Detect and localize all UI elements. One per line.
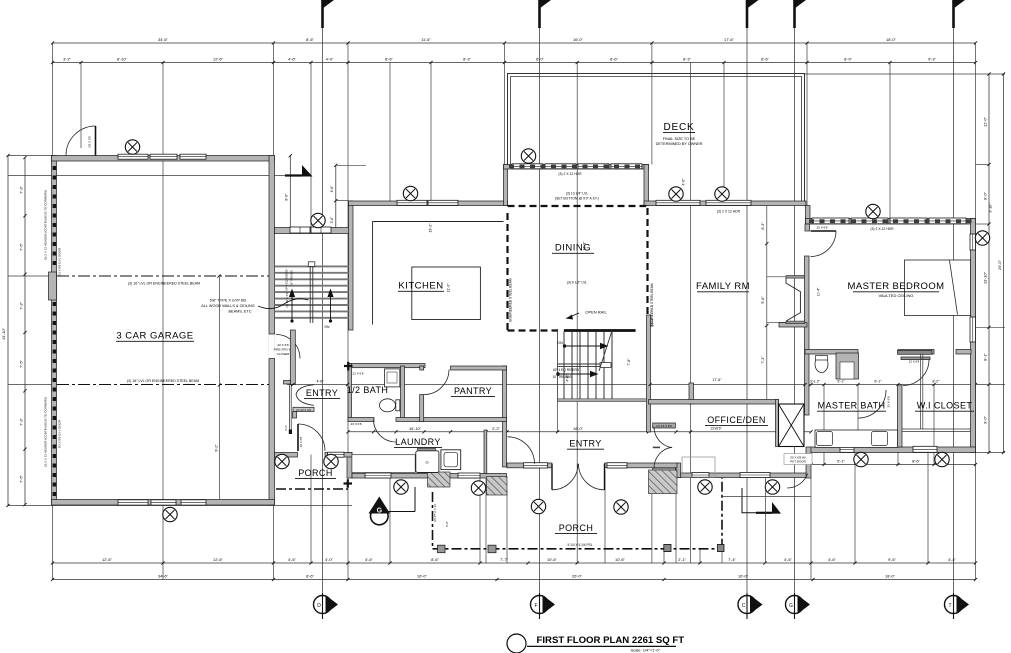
svg-text:(2) 24 X 6'8: (2) 24 X 6'8 [656, 424, 672, 428]
wall: pantry north [451, 366, 507, 370]
svg-text:8'-6": 8'-6" [306, 37, 314, 42]
window: master north 1 [812, 218, 849, 224]
kitchen counter lines [373, 221, 504, 223]
window keynote ⊗: master south 1 [854, 452, 868, 466]
svg-text:F: F [534, 603, 537, 609]
stair back: treads [275, 266, 349, 317]
window keynote ⊗: family 2 [715, 187, 729, 201]
svg-text:8'-3": 8'-3" [683, 57, 691, 62]
svg-text:PKT DOOR: PKT DOOR [790, 460, 806, 464]
svg-text:FIRE RTD W/: FIRE RTD W/ [274, 348, 293, 352]
wall: left porch wall west [275, 453, 298, 458]
dimension line: bottom row overall [51, 578, 977, 581]
beam line garage lower (3) 16in LVL [57, 384, 272, 386]
svg-text:ENGINEERED STEEL BEAM: ENGINEERED STEEL BEAM [509, 278, 513, 322]
window keynote ⊗: garage bottom [163, 507, 177, 521]
svg-text:4'-6": 4'-6" [566, 374, 570, 382]
grid line T [953, 8, 955, 596]
svg-text:8'-6": 8'-6" [306, 574, 314, 579]
garage door panel dashes [53, 166, 57, 496]
svg-text:UP 4 EQ RISERS: UP 4 EQ RISERS [285, 269, 289, 291]
door arc: coat closet door lower [654, 447, 672, 468]
svg-text:4'-6": 4'-6" [682, 178, 686, 186]
svg-text:2'8 X 6'8: 2'8 X 6'8 [88, 136, 92, 148]
office bench [682, 457, 715, 477]
svg-text:5/8" TYPE X GYP BD: 5/8" TYPE X GYP BD [210, 299, 247, 303]
svg-text:4'-6": 4'-6" [317, 379, 325, 383]
dashed beam dining south [508, 329, 558, 331]
window keynote ⊗: office 2 [765, 480, 779, 494]
svg-text:4'-4": 4'-4" [948, 557, 956, 562]
svg-text:28 X 6'8: 28 X 6'8 [299, 436, 303, 447]
svg-text:13'-10": 13'-10" [983, 271, 988, 284]
svg-text:18'-0": 18'-0" [886, 37, 897, 42]
window: office south 1 [692, 473, 709, 478]
window: master east 1 [970, 234, 976, 250]
grid bubble (bottom): grid D [314, 593, 339, 619]
svg-text:PANTRY: PANTRY [454, 386, 492, 396]
svg-text:4'-0": 4'-0" [326, 57, 334, 62]
door arc: left entry door [298, 424, 325, 451]
beam line garage upper (3) 16in LVL [57, 275, 273, 277]
window: dining 3 [578, 164, 609, 169]
wall: laundry north east piece [396, 418, 507, 422]
stair back: UP arrow right [327, 289, 333, 323]
wall: pantry/entry west wall [503, 366, 507, 467]
svg-text:OFFICE/DEN: OFFICE/DEN [707, 415, 766, 425]
window: dining 2 [545, 164, 576, 169]
svg-text:34'-6": 34'-6" [158, 37, 169, 42]
svg-text:3'-10": 3'-10" [989, 203, 993, 213]
svg-text:MASTER BATH: MASTER BATH [818, 401, 886, 411]
wall: kitchen west [349, 201, 354, 330]
svg-text:11'-9": 11'-9" [583, 241, 587, 251]
coat closet north stub + label [653, 423, 676, 428]
door arc: master bath door [858, 390, 886, 418]
deck outline inner [511, 77, 802, 202]
wall: office west stub [689, 383, 694, 404]
svg-text:7'-5": 7'-5" [19, 475, 24, 483]
svg-text:4'-6": 4'-6" [288, 57, 296, 62]
wall: laundry south [352, 474, 507, 479]
wall: dining north window-wall [504, 165, 649, 170]
wall: pantry west hinge stub [420, 366, 424, 370]
dimension line: right outer [1002, 72, 1005, 454]
window keynote ⊗: master north [866, 204, 880, 218]
window: garage top 1 [118, 154, 148, 159]
toilet nook block [836, 353, 859, 379]
grid line D [322, 8, 324, 596]
svg-text:16'-10": 16'-10" [409, 426, 422, 431]
svg-text:8'-6": 8'-6" [912, 459, 920, 464]
svg-text:3'-6": 3'-6" [330, 216, 334, 224]
svg-text:8'-0": 8'-0" [536, 57, 544, 62]
window keynote ⊗: kitchen [403, 186, 417, 200]
grid bubble (bottom): grid G [786, 593, 811, 619]
window: back porch 1 [290, 227, 310, 233]
grid flag (top): grid G [795, 0, 807, 28]
door arc: garage man door [66, 126, 96, 156]
wall: master connector [806, 206, 811, 225]
svg-text:(3) 2 X 12 HEADER (CONTINUOUS: (3) 2 X 12 HEADER (CONTINUOUS TO CORNERS… [44, 190, 48, 260]
window: master east 2 [970, 317, 976, 342]
half-bath toilet [380, 399, 400, 412]
window keynote ⊗: office 1 [698, 480, 712, 494]
window keynote ⊗: family 1 [669, 187, 683, 201]
door arc: coat closet door upper [654, 427, 672, 448]
side porch edge line [722, 496, 811, 498]
front double door leaves [551, 464, 553, 490]
svg-text:G: G [425, 460, 428, 465]
svg-text:5'-6": 5'-6" [761, 296, 765, 304]
wall: office north [649, 400, 779, 405]
stair back: UP arrow left [289, 289, 295, 323]
hall internal dim [291, 383, 294, 386]
svg-text:43'-10": 43'-10" [1, 327, 6, 340]
wall: bed/bath wall west piece [805, 350, 858, 355]
stair main: left edge [557, 329, 559, 401]
garage man door leaf [95, 126, 97, 156]
svg-text:2'-2": 2'-2" [284, 425, 288, 431]
window: master south 2 [913, 446, 937, 452]
window: office south 2 [740, 473, 770, 478]
svg-text:12'-6": 12'-6" [213, 57, 224, 62]
svg-text:7'-3": 7'-3" [761, 356, 765, 364]
window: dining 4 [611, 164, 642, 169]
window: dining 1 [512, 164, 543, 169]
wic door header [901, 357, 930, 360]
svg-text:8'-6": 8'-6" [431, 557, 439, 562]
stair main: top rail heavy line [564, 329, 636, 332]
svg-text:UP 4 EQ RISERS: UP 4 EQ RISERS [553, 368, 580, 372]
door arc: front door right leaf [579, 464, 605, 490]
grid line F [539, 8, 541, 596]
window: master south 1 [840, 446, 854, 452]
svg-text:3 CAR GARAGE: 3 CAR GARAGE [116, 331, 193, 342]
window: master north 3 [890, 218, 927, 224]
laundry sink [441, 450, 461, 470]
hall closet stub wall [293, 412, 297, 419]
svg-text:4'-0": 4'-0" [325, 557, 333, 562]
wall: bath-closet wall [898, 385, 903, 447]
column plus mark upper [344, 365, 353, 367]
stair main: UP arrow [556, 371, 598, 377]
svg-text:(3) 2 X 12 HDR: (3) 2 X 12 HDR [870, 227, 894, 231]
window: master north 2 [851, 218, 888, 224]
window keynote ⊗: laundry 1 [394, 480, 408, 494]
svg-text:(3) 13 1/4" LVL: (3) 13 1/4" LVL [566, 191, 589, 195]
window: garage bottom 2 [151, 500, 176, 505]
porch front edge dash-dot [433, 548, 723, 550]
svg-text:8'-6": 8'-6" [610, 57, 618, 62]
wall: half-bath west [348, 364, 352, 421]
svg-text:VAULTED CEILING: VAULTED CEILING [879, 293, 914, 298]
wall: master east [971, 219, 976, 453]
door arc: laundry door [374, 420, 397, 443]
svg-text:KITCHEN: KITCHEN [398, 281, 443, 292]
window keynote ⊗: laundry 2 [471, 481, 485, 495]
svg-text:12'-6": 12'-6" [213, 557, 224, 562]
svg-text:7'-7": 7'-7" [500, 557, 508, 562]
family fireplace niche [767, 276, 805, 324]
svg-text:FAMILY RM: FAMILY RM [696, 281, 750, 292]
door arc: office pocket door [787, 474, 808, 489]
svg-text:C: C [742, 603, 746, 609]
washer [416, 448, 439, 472]
door arc: kitchen/entry door [508, 437, 535, 464]
svg-text:13'x6'6": 13'x6'6" [710, 427, 723, 431]
svg-text:LAUNDRY: LAUNDRY [395, 437, 441, 447]
title circle [507, 634, 526, 653]
svg-text:(3) 2 X 12 HDR: (3) 2 X 12 HDR [717, 210, 741, 214]
window keynote ⊗: master south 2 [935, 452, 949, 466]
wall: entry-office jog [676, 463, 681, 478]
wall: garage right [269, 156, 275, 506]
svg-text:CLOSER: CLOSER [277, 352, 290, 356]
door arc: bedroom door [811, 231, 837, 257]
svg-text:8'-9": 8'-9" [844, 57, 852, 62]
wall: entry south west piece [507, 463, 552, 468]
extension lines vertical [52, 43, 54, 580]
dimension line: top row overall [51, 41, 977, 44]
window: garage top 3 [180, 154, 206, 159]
svg-text:7'-5": 7'-5" [19, 360, 24, 368]
svg-text:20 X 6'8: 20 X 6'8 [277, 343, 289, 347]
back porch 4'-6/3'-6 dim column [335, 165, 337, 232]
window keynote ⊗: entry 1 [531, 499, 545, 513]
svg-text:10'-6": 10'-6" [547, 557, 558, 562]
svg-text:(2) 20 X 6'8: (2) 20 X 6'8 [296, 408, 311, 412]
svg-text:9'-2": 9'-2" [215, 444, 219, 452]
header keynote line y176 [8, 175, 285, 177]
wall: garage left [52, 156, 57, 506]
chimney box with X [779, 404, 805, 447]
svg-text:4'-6": 4'-6" [288, 557, 296, 562]
grid flag (top): grid D [323, 0, 335, 28]
svg-text:14'-4": 14'-4" [651, 317, 655, 327]
wall: bedroom west upper [805, 224, 810, 231]
wall: entry south east piece [605, 463, 678, 468]
svg-text:22 X 6'8: 22 X 6'8 [353, 372, 364, 376]
window: left porch [328, 452, 345, 457]
wall: laundry north west piece [348, 418, 374, 422]
svg-text:BEAMS, ETC: BEAMS, ETC [229, 310, 252, 314]
window: kitchen 2 [428, 200, 458, 205]
kitchen island [412, 267, 481, 320]
master bath vanity [815, 430, 898, 448]
svg-text:8'-3": 8'-3" [761, 222, 765, 230]
internal extension line y385 [8, 384, 57, 386]
wic shelves [902, 354, 971, 432]
svg-text:DETERMINED BY OWNER: DETERMINED BY OWNER [656, 142, 703, 146]
svg-text:22 X 6'8: 22 X 6'8 [909, 359, 920, 363]
svg-text:PORCH: PORCH [298, 468, 333, 478]
wall: pantry west lower [420, 395, 424, 422]
svg-text:DECK: DECK [664, 122, 695, 133]
grid bubble (bottom): grid T [945, 593, 970, 619]
svg-text:20 X 6'8: 20 X 6'8 [351, 422, 362, 426]
grid flag (top): grid T [954, 0, 966, 28]
grid line C [746, 8, 748, 596]
wall: master north window-wall [806, 219, 976, 225]
svg-text:12'-0": 12'-0" [983, 116, 988, 127]
left entry door leaf [297, 424, 299, 451]
column plus mark lower [344, 482, 353, 484]
svg-text:D: D [317, 603, 321, 609]
svg-text:ENTRY: ENTRY [569, 439, 601, 449]
back porch 8'-6 dim [289, 156, 291, 229]
svg-text:3'-2": 3'-2" [63, 57, 71, 62]
svg-text:26'-0": 26'-0" [572, 574, 583, 579]
svg-text:G: G [789, 603, 793, 609]
stair main: break line [599, 331, 612, 371]
window: garage top 2 [150, 154, 177, 159]
family dim stack [766, 206, 768, 400]
svg-text:7'-3": 7'-3" [19, 418, 24, 426]
svg-text:DN: DN [557, 341, 563, 345]
svg-text:2'-1": 2'-1" [678, 557, 686, 562]
svg-text:10'-4": 10'-4" [817, 287, 821, 296]
svg-text:8'-6": 8'-6" [761, 57, 769, 62]
svg-text:19'-2": 19'-2" [429, 223, 433, 233]
wall: kitchen north [349, 201, 508, 206]
stair back: center rail [308, 262, 315, 323]
svg-text:(3) 2 X 12 HDR: (3) 2 X 12 HDR [558, 172, 582, 176]
grid line G [794, 8, 796, 596]
svg-text:PORCH: PORCH [559, 523, 594, 533]
window: back porch 2 [311, 227, 331, 233]
svg-text:12'-6": 12'-6" [102, 557, 113, 562]
wall: half-bath east [401, 366, 405, 418]
wall: master hall stub [779, 323, 807, 328]
chimney side band [776, 400, 779, 447]
hatched pier laundry [428, 472, 451, 487]
svg-text:9'3 X 8'9 O.H. DOOR: 9'3 X 8'9 O.H. DOOR [58, 247, 62, 276]
svg-text:6'-0": 6'-0" [445, 521, 449, 527]
dashed beam dining east [646, 208, 648, 315]
svg-text:8'-1": 8'-1" [983, 353, 988, 361]
svg-text:29'-0": 29'-0" [997, 259, 1002, 270]
wall: dining east stub [644, 165, 649, 206]
window: laundry 1 [365, 473, 391, 478]
svg-text:G: G [377, 508, 383, 515]
dashed beam dining west [506, 213, 508, 331]
grid flag (top): grid F [540, 0, 552, 28]
svg-text:(3) 2 X 12 HEADER (CONTINUOUS: (3) 2 X 12 HEADER (CONTINUOUS TO CORNERS… [44, 397, 48, 467]
svg-text:18'-0": 18'-0" [885, 574, 896, 579]
svg-text:4'-6": 4'-6" [784, 557, 792, 562]
wall: office south [676, 473, 806, 478]
svg-text:T: T [948, 603, 951, 609]
wall: dining west (kitchen/dining) [504, 165, 508, 206]
grid bubble (bottom): grid F [531, 593, 556, 619]
svg-text:11'-3": 11'-3" [447, 283, 451, 293]
wall: entry closet wall [484, 430, 487, 474]
svg-text:10" TREADS: 10" TREADS [290, 270, 294, 286]
svg-text:1/2 BATH: 1/2 BATH [347, 385, 389, 395]
window keynote ⊗: left porch 2 [324, 454, 338, 468]
dimension line: top row segments [51, 61, 977, 64]
svg-text:8'-6": 8'-6" [284, 193, 288, 201]
dimension line: left outer [6, 154, 9, 507]
hall closet double doors [296, 385, 314, 406]
stair main: center rail [558, 363, 612, 368]
window: entry sidelight 2 [607, 463, 627, 468]
svg-text:2'-2": 2'-2" [492, 426, 500, 431]
half-bath vanity [385, 369, 400, 387]
svg-text:5'-1": 5'-1" [837, 459, 845, 464]
garage left wall pier [49, 272, 57, 300]
dimension line: bottom row segments [51, 561, 977, 564]
window keynote ⊗: entry 2 [614, 500, 628, 514]
svg-text:ENTRY: ENTRY [306, 388, 338, 398]
dimension line: internal row y432 [346, 430, 812, 433]
dimension line: right inner [987, 72, 990, 454]
svg-text:4'-6": 4'-6" [330, 185, 334, 193]
window keynote ⊗: garage top [125, 140, 139, 154]
svg-text:16'-0": 16'-0" [417, 574, 428, 579]
door arc: pantry door [424, 370, 449, 395]
laundry counter [352, 455, 415, 473]
svg-text:Scale: 1/4"=1'-0": Scale: 1/4"=1'-0" [630, 648, 660, 653]
window: entry sidelight 1 [524, 463, 548, 468]
svg-text:7'-3": 7'-3" [19, 302, 24, 310]
svg-text:9'-6": 9'-6" [888, 557, 896, 562]
door arc: front door left leaf [552, 464, 578, 490]
wall: stair hall east wall [647, 315, 651, 432]
dining window-wall mullion dashes [509, 165, 640, 169]
window: kitchen 1 [397, 200, 427, 205]
dashed beam dining top [508, 205, 647, 207]
wall: family north [644, 201, 806, 206]
svg-text:5'-1": 5'-1" [837, 379, 845, 383]
stair main: treads [564, 332, 612, 400]
master toilet [815, 356, 828, 373]
wall: bed/bath wall middle piece [898, 350, 934, 355]
window: family 1 [656, 200, 700, 205]
svg-text:FIRST FLOOR PLAN 2261 SQ FT: FIRST FLOOR PLAN 2261 SQ FT [537, 635, 685, 646]
svg-text:16'-0": 16'-0" [573, 426, 584, 431]
svg-text:7'-8": 7'-8" [627, 358, 631, 366]
svg-text:FINAL SIZE TO BE: FINAL SIZE TO BE [663, 137, 696, 141]
window: family 2 [706, 200, 751, 205]
svg-text:7'-5": 7'-5" [19, 243, 24, 251]
svg-text:9'3 X 8'9 O.H. DOOR: 9'3 X 8'9 O.H. DOOR [58, 419, 62, 448]
svg-text:8'-2": 8'-2" [932, 379, 940, 383]
window keynote ⊗: left porch 1 [275, 454, 289, 468]
svg-text:7'-4": 7'-4" [728, 557, 736, 562]
svg-text:17'-6": 17'-6" [724, 37, 735, 42]
extension lines horizontal [8, 155, 52, 157]
svg-text:4'-6": 4'-6" [365, 557, 373, 562]
dimension line: internal row y464 master [809, 463, 977, 466]
svg-text:11'-6": 11'-6" [421, 37, 431, 42]
window keynote ⊗: back porch [311, 213, 325, 227]
svg-text:16'-0": 16'-0" [738, 574, 749, 579]
bed [905, 260, 971, 316]
svg-text:17'-6": 17'-6" [712, 378, 722, 382]
wall: bed/bath wall east piece [956, 350, 971, 355]
window keynote ⊗: dining [521, 149, 535, 163]
svg-text:9'-0": 9'-0" [983, 416, 988, 424]
svg-text:MASTER BEDROOM: MASTER BEDROOM [848, 281, 945, 292]
svg-text:3'-1 2": 3'-1 2" [810, 379, 821, 383]
office keynote leader + flag [742, 488, 758, 513]
svg-text:W.I CLOSET: W.I CLOSET [917, 401, 973, 411]
wall: master hall west wall [805, 256, 810, 415]
gas meter bubble [369, 487, 416, 525]
svg-text:ALL WOOD WALLS & CEILING: ALL WOOD WALLS & CEILING [201, 304, 255, 308]
